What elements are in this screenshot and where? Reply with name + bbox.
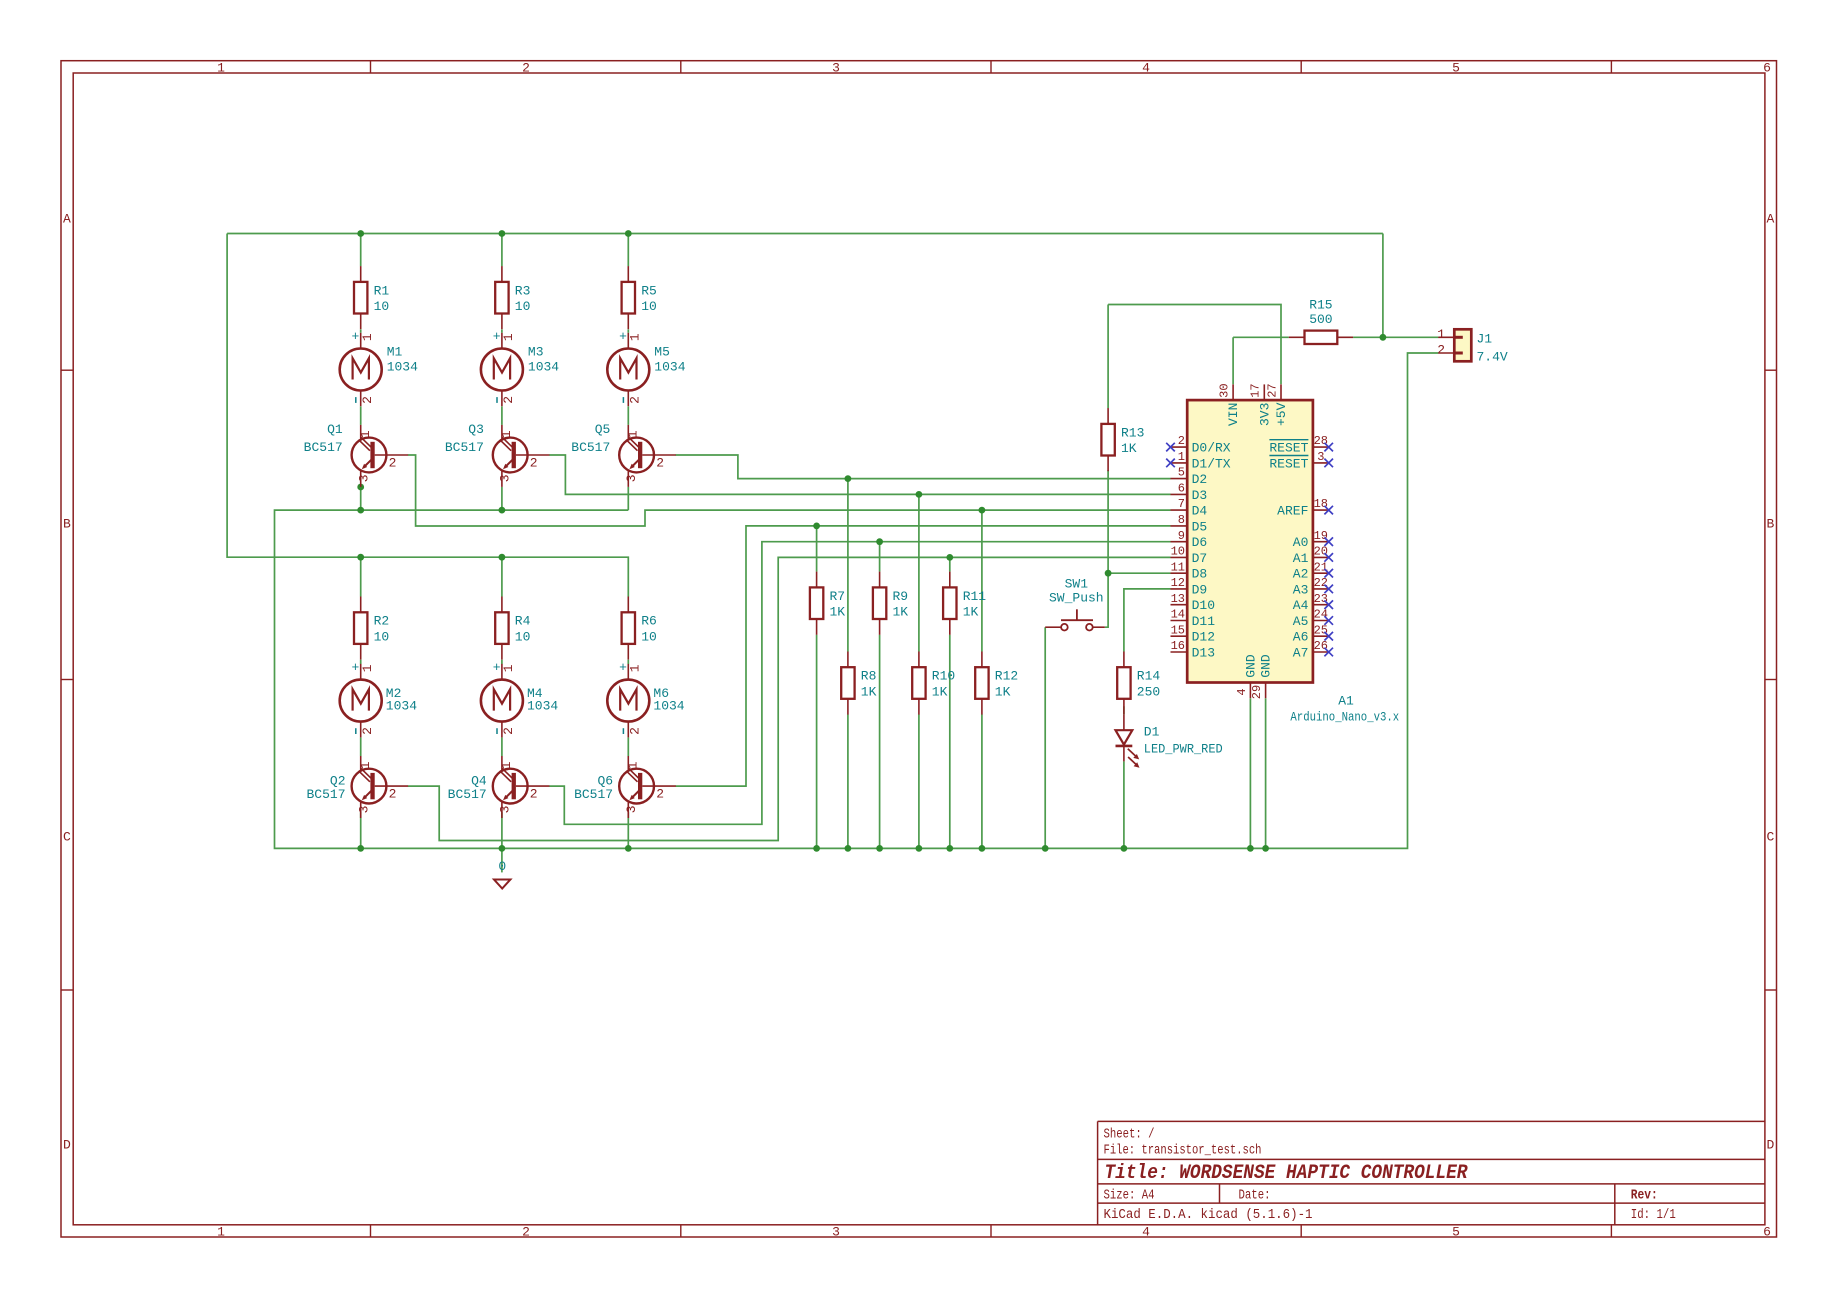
wire [627, 234, 629, 267]
svg-text:1034: 1034 [386, 699, 417, 714]
motor M6 [607, 660, 685, 737]
wire [1107, 470, 1109, 573]
svg-text:R6: R6 [641, 614, 657, 629]
wire [501, 660, 503, 664]
svg-text:1: 1 [625, 761, 640, 769]
transistor Q2 [306, 756, 408, 818]
pin 12 D9 [1171, 576, 1208, 597]
wire [1123, 761, 1125, 848]
svg-text:R5: R5 [641, 283, 657, 298]
svg-text:2: 2 [656, 787, 664, 802]
svg-text:D4: D4 [1192, 504, 1208, 519]
svg-text:11: 11 [1171, 560, 1185, 574]
svg-text:2: 2 [501, 396, 516, 404]
wire [549, 455, 1170, 494]
pin 2 D0/RX [1166, 434, 1231, 455]
pin 5 D2 [1171, 466, 1208, 487]
wire [1123, 706, 1125, 714]
svg-text:2: 2 [389, 787, 397, 802]
wire [1232, 337, 1234, 384]
pin 7 D4 [1171, 497, 1208, 518]
svg-text:2: 2 [627, 396, 642, 404]
svg-text:10: 10 [374, 630, 390, 645]
wire [816, 526, 818, 572]
resistor R5 [622, 266, 657, 329]
svg-text:6: 6 [1763, 1225, 1771, 1240]
svg-text:1K: 1K [830, 605, 846, 620]
pin 1 D1/TX [1166, 450, 1231, 471]
svg-text:R4: R4 [515, 614, 531, 629]
svg-text:D3: D3 [1192, 488, 1208, 503]
pin 14 D11 [1171, 608, 1216, 629]
svg-text:R2: R2 [374, 614, 390, 629]
wire [549, 542, 1170, 825]
svg-text:3: 3 [624, 474, 639, 482]
pin 3 RESET [1269, 450, 1333, 471]
wire [1124, 589, 1171, 652]
svg-text:R10: R10 [932, 669, 955, 684]
svg-text:12: 12 [1171, 576, 1185, 590]
svg-text:+: + [351, 660, 359, 675]
svg-text:500: 500 [1309, 312, 1332, 327]
svg-text:30: 30 [1217, 383, 1231, 397]
svg-text:+: + [619, 329, 627, 344]
wire [501, 812, 503, 848]
transistor Q6 [574, 756, 676, 818]
svg-text:5: 5 [1178, 466, 1185, 480]
svg-text:29: 29 [1250, 685, 1264, 699]
svg-text:1: 1 [499, 430, 514, 438]
svg-text:1: 1 [1178, 450, 1185, 464]
svg-text:2: 2 [360, 396, 375, 404]
pin 20 A1 [1293, 545, 1333, 566]
svg-text:BC517: BC517 [306, 787, 345, 802]
pin 25 A6 [1293, 623, 1333, 644]
pin 9 D6 [1171, 529, 1208, 550]
resistor R7 [810, 572, 845, 635]
svg-text:1: 1 [627, 333, 642, 341]
svg-text:+: + [619, 660, 627, 675]
svg-text:3V3: 3V3 [1257, 403, 1272, 426]
svg-text:1034: 1034 [654, 360, 685, 375]
svg-text:2: 2 [530, 787, 538, 802]
svg-text:BC517: BC517 [448, 787, 487, 802]
svg-text:+: + [351, 329, 359, 344]
svg-text:250: 250 [1137, 684, 1160, 699]
wire [1108, 305, 1281, 385]
svg-text:C: C [1766, 830, 1774, 845]
transistor Q5 [571, 422, 676, 487]
wire [847, 715, 849, 849]
pin 23 A4 [1293, 592, 1333, 613]
svg-text:17: 17 [1249, 383, 1263, 397]
wire [227, 233, 1383, 235]
svg-text:File: transistor_test.sch: File: transistor_test.sch [1104, 1144, 1262, 1159]
svg-text:3: 3 [498, 474, 513, 482]
svg-text:4: 4 [1142, 60, 1150, 75]
svg-text:1: 1 [358, 430, 373, 438]
svg-text:1K: 1K [963, 605, 979, 620]
svg-text:2: 2 [627, 727, 642, 735]
svg-text:3: 3 [357, 805, 372, 813]
svg-text:2: 2 [1178, 434, 1185, 448]
svg-text:R8: R8 [861, 669, 877, 684]
svg-text:9: 9 [1178, 529, 1185, 543]
svg-text:18: 18 [1314, 497, 1328, 511]
svg-text:Title: WORDSENSE HAPTIC CONTRO: Title: WORDSENSE HAPTIC CONTROLLER [1105, 1162, 1469, 1185]
transistor Q3 [445, 422, 550, 487]
svg-text:3: 3 [1317, 450, 1324, 464]
pin 27 +5V [1265, 383, 1289, 426]
wire [501, 234, 503, 267]
svg-text:21: 21 [1314, 560, 1328, 574]
svg-text:1: 1 [625, 430, 640, 438]
svg-text:R14: R14 [1137, 669, 1161, 684]
svg-text:22: 22 [1314, 576, 1328, 590]
svg-text:2: 2 [530, 455, 538, 470]
svg-text:1034: 1034 [528, 360, 559, 375]
motor M3 [481, 329, 559, 406]
svg-text:13: 13 [1171, 592, 1185, 606]
wire [501, 329, 503, 332]
pin 17 3V3 [1249, 383, 1273, 426]
svg-text:6: 6 [1763, 60, 1771, 75]
pin 6 D3 [1171, 482, 1208, 503]
svg-text:8: 8 [1178, 513, 1185, 527]
svg-text:Rev:: Rev: [1631, 1189, 1658, 1204]
wire [501, 737, 503, 756]
svg-text:M3: M3 [528, 345, 544, 360]
wire [627, 487, 629, 510]
svg-text:2: 2 [1437, 343, 1445, 358]
svg-text:D9: D9 [1192, 582, 1208, 597]
svg-text:A2: A2 [1293, 567, 1309, 582]
transistor Q4 [448, 756, 550, 818]
svg-text:3: 3 [498, 805, 513, 813]
svg-text:D13: D13 [1192, 646, 1215, 661]
wire [627, 812, 629, 848]
svg-text:7.4V: 7.4V [1477, 349, 1508, 364]
resistor R4 [495, 597, 530, 660]
svg-text:A1: A1 [1338, 694, 1354, 709]
switch SW1 SW_Push [1045, 577, 1105, 631]
svg-text:R15: R15 [1309, 298, 1332, 313]
pin 29 GND [1250, 654, 1273, 699]
wire [408, 557, 1171, 840]
pin 10 D7 [1171, 545, 1208, 566]
svg-text:A: A [63, 212, 71, 227]
wire [676, 526, 1171, 786]
wire [847, 479, 849, 652]
svg-text:23: 23 [1314, 592, 1328, 606]
title block [1098, 1121, 1765, 1224]
svg-text:1: 1 [499, 761, 514, 769]
svg-text:Q5: Q5 [595, 422, 611, 437]
svg-text:A3: A3 [1293, 582, 1309, 597]
wire [360, 329, 362, 332]
LED D1 [1116, 715, 1223, 768]
ground symbol (0 net) [494, 859, 510, 889]
wire [1249, 698, 1251, 848]
svg-text:R11: R11 [963, 589, 987, 604]
svg-text:7: 7 [1178, 497, 1185, 511]
svg-text:M1: M1 [387, 345, 403, 360]
svg-text:J1: J1 [1477, 331, 1493, 346]
wire [1265, 698, 1267, 848]
svg-text:1: 1 [360, 333, 375, 341]
resistor R1 [354, 266, 389, 329]
pin 8 D5 [1171, 513, 1208, 534]
wire [501, 848, 503, 872]
svg-text:27: 27 [1265, 383, 1279, 397]
wire [1107, 305, 1109, 409]
svg-text:D0/RX: D0/RX [1192, 441, 1231, 456]
svg-text:Q3: Q3 [468, 422, 484, 437]
svg-text:1K: 1K [932, 684, 948, 699]
svg-text:RESET: RESET [1269, 456, 1308, 471]
svg-text:0: 0 [498, 859, 506, 874]
svg-text:RESET: RESET [1269, 441, 1308, 456]
wire [627, 406, 629, 425]
resistor R15 [1289, 298, 1353, 344]
wire [360, 557, 362, 596]
svg-text:Size: A4: Size: A4 [1104, 1189, 1155, 1204]
svg-text:1K: 1K [995, 684, 1011, 699]
svg-text:R7: R7 [830, 589, 846, 604]
svg-text:D6: D6 [1192, 535, 1208, 550]
wire [949, 557, 951, 571]
motor M1 [340, 329, 418, 406]
svg-text:AREF: AREF [1277, 504, 1308, 519]
svg-text:1: 1 [627, 664, 642, 672]
resistor R8 [841, 652, 876, 715]
motor M4 [481, 660, 559, 737]
resistor R11 [943, 572, 986, 635]
svg-text:GND: GND [1259, 654, 1274, 678]
resistor R14 [1117, 652, 1160, 715]
wire [360, 737, 362, 756]
svg-text:2: 2 [656, 455, 664, 470]
svg-text:24: 24 [1314, 608, 1328, 622]
svg-text:A0: A0 [1293, 535, 1309, 550]
svg-text:B: B [1766, 517, 1774, 532]
svg-text:A1: A1 [1293, 551, 1309, 566]
wire [879, 542, 881, 572]
resistor R3 [495, 266, 530, 329]
wire [1382, 234, 1384, 338]
pin 16 D13 [1171, 639, 1216, 660]
wire [501, 487, 503, 510]
svg-text:BC517: BC517 [571, 440, 610, 455]
svg-text:D11: D11 [1192, 614, 1216, 629]
svg-text:D5: D5 [1192, 519, 1208, 534]
svg-text:A7: A7 [1293, 646, 1309, 661]
wire [1233, 336, 1289, 338]
svg-text:2: 2 [522, 60, 530, 75]
connector J1 [1437, 327, 1508, 364]
svg-text:1: 1 [217, 1225, 225, 1240]
svg-text:D7: D7 [1192, 551, 1208, 566]
svg-text:4: 4 [1235, 688, 1249, 695]
wire [1044, 627, 1046, 848]
svg-text:R13: R13 [1121, 425, 1144, 440]
svg-text:SW1: SW1 [1065, 577, 1089, 592]
svg-text:LED_PWR_RED: LED_PWR_RED [1144, 741, 1223, 756]
svg-text:4: 4 [1142, 1225, 1150, 1240]
wire [1108, 572, 1170, 574]
resistor R13 [1101, 408, 1144, 471]
pin 24 A5 [1293, 608, 1333, 629]
wire [275, 353, 1439, 848]
pin 4 GND [1235, 654, 1258, 698]
motor M5 [607, 329, 685, 406]
wire [1105, 573, 1108, 627]
svg-text:D10: D10 [1192, 598, 1215, 613]
svg-text:R1: R1 [374, 283, 390, 298]
svg-text:2: 2 [501, 727, 516, 735]
wire [981, 510, 983, 651]
svg-text:20: 20 [1314, 545, 1328, 559]
wire [360, 660, 362, 664]
wire [1353, 336, 1438, 338]
svg-text:+: + [493, 329, 501, 344]
svg-text:BC517: BC517 [304, 440, 343, 455]
pin 15 D12 [1171, 623, 1216, 644]
svg-text:Id: 1/1: Id: 1/1 [1631, 1208, 1676, 1223]
svg-text:1034: 1034 [387, 360, 418, 375]
wire [360, 234, 362, 267]
pin 28 RESET [1269, 434, 1333, 455]
svg-text:KiCad E.D.A. kicad (5.1.6)-1: KiCad E.D.A. kicad (5.1.6)-1 [1104, 1208, 1313, 1223]
svg-text:A4: A4 [1293, 598, 1309, 613]
svg-text:D8: D8 [1192, 567, 1208, 582]
svg-text:GND: GND [1243, 654, 1258, 678]
svg-text:1: 1 [358, 761, 373, 769]
svg-text:M5: M5 [654, 345, 670, 360]
svg-text:10: 10 [641, 630, 657, 645]
svg-text:+: + [493, 660, 501, 675]
resistor R9 [873, 572, 908, 635]
svg-text:10: 10 [1171, 545, 1185, 559]
svg-text:1034: 1034 [527, 699, 558, 714]
svg-text:3: 3 [832, 60, 840, 75]
svg-text:A6: A6 [1293, 630, 1309, 645]
svg-text:26: 26 [1314, 639, 1328, 653]
pin 13 D10 [1171, 592, 1216, 613]
wire [949, 635, 951, 849]
svg-text:3: 3 [832, 1225, 840, 1240]
wire [627, 329, 629, 332]
svg-text:2: 2 [389, 455, 397, 470]
resistor R2 [354, 597, 389, 660]
wire [918, 494, 920, 651]
pin 18 AREF [1277, 497, 1333, 518]
svg-text:1: 1 [501, 333, 516, 341]
svg-text:10: 10 [515, 630, 531, 645]
svg-text:25: 25 [1314, 623, 1328, 637]
pin 21 A2 [1293, 560, 1333, 581]
svg-text:D12: D12 [1192, 630, 1215, 645]
pin 11 D8 [1171, 560, 1208, 581]
svg-text:A: A [1766, 212, 1774, 227]
svg-text:10: 10 [374, 299, 390, 314]
svg-text:+5V: +5V [1274, 402, 1289, 426]
svg-text:R3: R3 [515, 283, 531, 298]
svg-text:1: 1 [217, 60, 225, 75]
wire [501, 406, 503, 425]
wire junctions [357, 230, 1386, 852]
wire [408, 455, 1171, 526]
svg-text:D: D [63, 1138, 71, 1153]
wire [676, 455, 1171, 479]
svg-text:R9: R9 [893, 589, 909, 604]
wire [360, 406, 362, 425]
pin 26 A7 [1293, 639, 1333, 660]
svg-text:19: 19 [1314, 529, 1328, 543]
wire [816, 635, 818, 849]
svg-text:SW_Push: SW_Push [1049, 591, 1104, 606]
wire [627, 660, 629, 664]
svg-text:1: 1 [1437, 327, 1445, 342]
svg-text:1: 1 [360, 664, 375, 672]
svg-text:5: 5 [1452, 1225, 1460, 1240]
wire [360, 487, 362, 510]
svg-text:D2: D2 [1192, 472, 1208, 487]
svg-text:1034: 1034 [653, 699, 684, 714]
wire [918, 715, 920, 849]
svg-text:3: 3 [624, 805, 639, 813]
svg-text:10: 10 [641, 299, 657, 314]
svg-text:10: 10 [515, 299, 531, 314]
wire [981, 715, 983, 849]
svg-text:B: B [63, 517, 71, 532]
IC A1 Arduino_Nano_v3.x [1187, 400, 1313, 682]
svg-text:VIN: VIN [1226, 403, 1241, 426]
svg-text:Date:: Date: [1239, 1189, 1271, 1204]
svg-text:D1: D1 [1144, 724, 1160, 739]
pin 22 A3 [1293, 576, 1333, 597]
svg-text:BC517: BC517 [574, 787, 613, 802]
svg-text:1K: 1K [893, 605, 909, 620]
svg-text:14: 14 [1171, 608, 1185, 622]
svg-text:C: C [63, 830, 71, 845]
wire [501, 557, 503, 596]
svg-text:3: 3 [357, 474, 372, 482]
resistor R12 [975, 652, 1018, 715]
svg-text:16: 16 [1171, 639, 1185, 653]
wire [879, 635, 881, 849]
svg-text:2: 2 [522, 1225, 530, 1240]
wire [227, 234, 628, 597]
wire [627, 737, 629, 756]
svg-text:BC517: BC517 [445, 440, 484, 455]
svg-text:2: 2 [360, 727, 375, 735]
svg-text:Sheet: /: Sheet: / [1104, 1128, 1155, 1143]
svg-text:6: 6 [1178, 482, 1185, 496]
svg-text:D1/TX: D1/TX [1192, 456, 1231, 471]
wire [360, 812, 362, 848]
svg-text:Arduino_Nano_v3.x: Arduino_Nano_v3.x [1290, 710, 1399, 725]
resistor R10 [912, 652, 955, 715]
svg-text:1: 1 [501, 664, 516, 672]
svg-text:D: D [1766, 1138, 1774, 1153]
svg-text:1K: 1K [861, 684, 877, 699]
pin 19 A0 [1293, 529, 1333, 550]
svg-text:1K: 1K [1121, 441, 1137, 456]
svg-text:28: 28 [1314, 434, 1328, 448]
svg-text:A5: A5 [1293, 614, 1309, 629]
svg-text:5: 5 [1452, 60, 1460, 75]
